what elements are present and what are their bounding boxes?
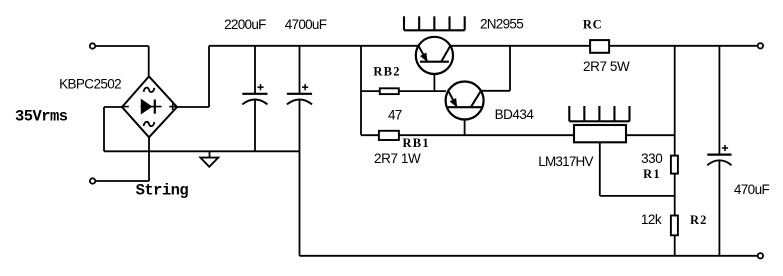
svg-text:R1: R1 [643,167,661,181]
svg-text:RC: RC [583,18,603,32]
svg-text:2N2955: 2N2955 [480,17,523,32]
svg-text:LM317HV: LM317HV [538,154,593,169]
svg-text:4700uF: 4700uF [285,17,327,32]
svg-text:35Vrms: 35Vrms [15,107,68,125]
svg-text:47: 47 [388,107,402,122]
svg-text:2R7 1W: 2R7 1W [374,151,421,166]
svg-text:2R7 5W: 2R7 5W [583,59,630,74]
svg-text:330: 330 [641,151,662,166]
svg-text:RB1: RB1 [402,136,430,150]
svg-text:KBPC2502: KBPC2502 [59,76,121,91]
svg-text:String: String [136,182,189,200]
svg-text:2200uF: 2200uF [224,17,266,32]
svg-text:470uF: 470uF [734,182,770,197]
svg-text:RB2: RB2 [373,64,401,78]
svg-text:BD434: BD434 [495,107,535,122]
svg-text:R2: R2 [690,213,708,227]
svg-text:12k: 12k [641,212,662,227]
